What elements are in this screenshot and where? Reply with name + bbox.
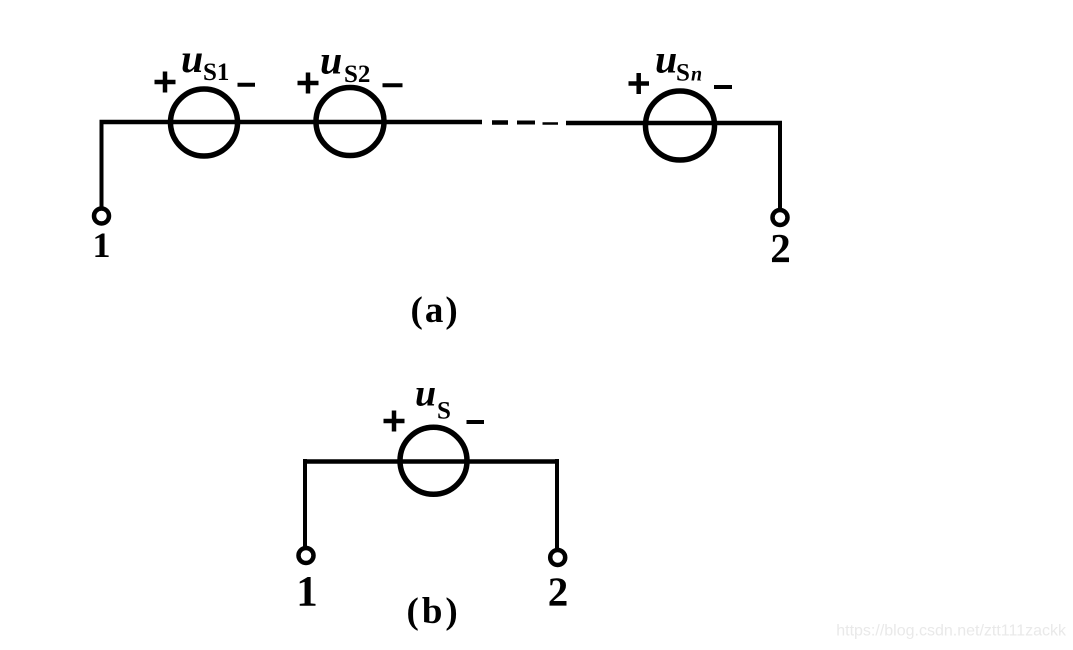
svg-text:2: 2 <box>548 569 569 615</box>
label uS <box>415 373 451 425</box>
voltage source Un (uSn) <box>646 91 715 160</box>
svg-text:2: 2 <box>770 225 791 271</box>
minus sign uS <box>467 420 485 424</box>
plus sign uS2 <box>298 73 319 94</box>
svg-text:n: n <box>691 63 702 85</box>
voltage source U (uS) <box>400 427 467 494</box>
svg-text:S1: S1 <box>203 59 229 86</box>
svg-text:1: 1 <box>93 225 111 265</box>
svg-text:(b): (b) <box>407 591 461 632</box>
minus sign uS1 <box>238 83 256 87</box>
svg-text:1: 1 <box>296 569 318 616</box>
wire right vertical (b) <box>555 459 559 549</box>
svg-text:u: u <box>415 373 436 415</box>
terminal 1 (a) <box>94 209 109 224</box>
label uS1 <box>181 36 229 86</box>
terminal 1 (b) <box>299 548 314 563</box>
svg-text:S: S <box>437 398 451 425</box>
plus sign uSn <box>629 73 650 94</box>
label uSn <box>655 36 702 86</box>
minus sign uSn <box>714 85 732 89</box>
wire dashed middle segment (a) <box>492 123 558 124</box>
wire left vertical (a) <box>100 120 104 208</box>
svg-text:S2: S2 <box>344 61 370 88</box>
svg-text:S: S <box>676 59 690 86</box>
wire left vertical (b) <box>303 459 307 547</box>
plus sign uS <box>384 411 405 432</box>
svg-text:u: u <box>181 36 203 81</box>
wire right vertical (a) <box>778 123 782 209</box>
terminal 2 (a) <box>773 210 788 225</box>
svg-text:https://blog.csdn.net/ztt111za: https://blog.csdn.net/ztt111zackk <box>836 623 1067 640</box>
minus sign uS2 <box>383 83 403 87</box>
svg-text:u: u <box>655 36 677 81</box>
wire top horizontal left segment (a) <box>100 120 483 125</box>
wire top horizontal right segment (a) <box>566 121 782 126</box>
wire horizontal (b) <box>303 459 558 464</box>
svg-text:(a): (a) <box>411 290 460 331</box>
terminal 2 (b) <box>550 550 565 565</box>
voltage source U2 (uS2) <box>316 88 384 156</box>
label uS2 <box>320 37 370 88</box>
plus sign uS1 <box>155 72 176 93</box>
svg-text:u: u <box>320 37 342 82</box>
voltage source U1 (uS1) <box>171 89 238 156</box>
